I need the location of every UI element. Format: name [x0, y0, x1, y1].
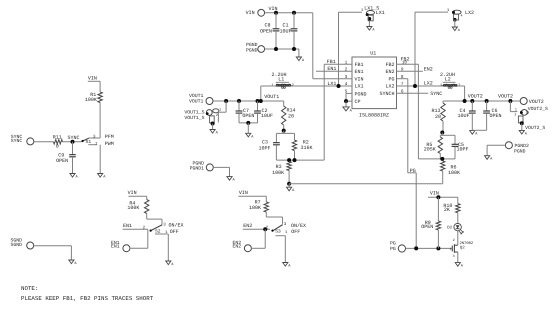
svg-text:C8: C8: [264, 22, 270, 28]
svg-text:7: 7: [401, 82, 404, 87]
svg-text:2: 2: [292, 83, 294, 88]
svg-text:VIN: VIN: [355, 76, 364, 82]
svg-text:U1: U1: [370, 50, 376, 56]
svg-text:PWM: PWM: [105, 141, 114, 147]
svg-text:VOUT1: VOUT1: [264, 94, 279, 100]
svg-text:3: 3: [453, 254, 455, 259]
svg-text:4: 4: [345, 82, 348, 87]
svg-text:SYNC: SYNC: [11, 138, 23, 144]
svg-text:OPEN: OPEN: [260, 29, 272, 35]
svg-text:EN1: EN1: [111, 244, 120, 250]
svg-text:3: 3: [345, 75, 348, 80]
svg-text:10PF: 10PF: [457, 147, 469, 153]
svg-text:NOTE:: NOTE:: [21, 285, 38, 292]
svg-text:100K: 100K: [448, 170, 460, 176]
svg-text:OPEN: OPEN: [421, 224, 433, 230]
svg-text:VOUT2_S: VOUT2_S: [525, 125, 545, 131]
svg-text:2: 2: [345, 67, 348, 72]
svg-text:PLEASE KEEP FB1, FB2 PINS TRAC: PLEASE KEEP FB1, FB2 PINS TRACES SHORT: [21, 295, 154, 302]
svg-text:VIN: VIN: [239, 190, 248, 196]
svg-text:PGND: PGND: [246, 42, 258, 48]
svg-text:8: 8: [401, 75, 404, 80]
svg-text:10PF: 10PF: [259, 146, 271, 152]
svg-text:1: 1: [345, 60, 348, 65]
svg-text:2N7002: 2N7002: [460, 241, 474, 246]
svg-text:OPEN: OPEN: [490, 113, 502, 119]
svg-text:SYNC: SYNC: [430, 91, 442, 97]
svg-text:VOUT2: VOUT2: [498, 93, 513, 99]
svg-text:4: 4: [461, 14, 463, 19]
svg-text:PGND1: PGND1: [190, 166, 205, 172]
svg-text:1: 1: [450, 247, 452, 252]
svg-text:VOUT1_S: VOUT1_S: [184, 115, 204, 121]
svg-text:PFM: PFM: [105, 134, 114, 140]
svg-text:PGND: PGND: [355, 92, 367, 98]
svg-text:1: 1: [219, 108, 221, 113]
svg-text:6: 6: [401, 89, 404, 94]
svg-text:PG: PG: [390, 241, 396, 247]
svg-text:PGND: PGND: [514, 149, 526, 155]
svg-text:LX1: LX1: [327, 81, 336, 87]
svg-text:FB2: FB2: [385, 62, 394, 68]
svg-text:SYNCH: SYNCH: [379, 91, 394, 97]
svg-text:EN2: EN2: [243, 223, 252, 229]
svg-text:D2: D2: [447, 226, 453, 231]
svg-text:L1: L1: [278, 77, 284, 83]
svg-text:EN1: EN1: [327, 66, 336, 72]
svg-text:LX2: LX2: [385, 84, 394, 90]
svg-text:10: 10: [402, 61, 408, 66]
svg-text:SYNC: SYNC: [68, 135, 80, 141]
svg-text:10UF: 10UF: [458, 113, 470, 119]
svg-text:316K: 316K: [301, 145, 313, 151]
svg-text:2: 2: [514, 112, 516, 117]
svg-text:R11: R11: [53, 134, 62, 140]
svg-text:EN2: EN2: [424, 66, 433, 72]
svg-text:0: 0: [56, 143, 59, 149]
svg-text:VIN: VIN: [128, 190, 137, 196]
svg-text:VOUT1: VOUT1: [189, 93, 204, 99]
svg-text:2K: 2K: [444, 207, 450, 213]
svg-text:1: 1: [515, 108, 517, 113]
svg-text:FB1: FB1: [355, 62, 364, 68]
svg-text:100K: 100K: [249, 205, 261, 211]
svg-text:100K: 100K: [85, 97, 97, 103]
svg-text:20: 20: [435, 114, 441, 120]
svg-text:VIN: VIN: [88, 75, 97, 81]
svg-text:L2: L2: [445, 77, 451, 83]
svg-text:Q2: Q2: [460, 245, 466, 250]
svg-text:PG: PG: [390, 246, 396, 252]
svg-text:100K: 100K: [127, 205, 139, 211]
svg-text:10UF: 10UF: [261, 113, 273, 119]
svg-text:VOUT2: VOUT2: [529, 99, 544, 105]
svg-text:20: 20: [288, 114, 294, 120]
svg-text:LX1: LX1: [355, 84, 364, 90]
svg-text:VOUT1_S: VOUT1_S: [184, 110, 204, 116]
svg-text:1: 1: [440, 83, 442, 88]
svg-text:LX1: LX1: [376, 10, 385, 16]
svg-text:EN2: EN2: [385, 69, 394, 75]
svg-text:LX2: LX2: [424, 81, 433, 87]
svg-text:SGND: SGND: [11, 242, 23, 248]
svg-text:VOUT2_S: VOUT2_S: [528, 106, 548, 112]
svg-text:OFF: OFF: [170, 229, 179, 235]
svg-text:PG: PG: [388, 76, 394, 82]
svg-text:9: 9: [401, 67, 404, 72]
svg-text:PGND: PGND: [246, 47, 258, 53]
svg-text:EN1: EN1: [123, 223, 132, 229]
svg-text:ON/EX: ON/EX: [169, 223, 184, 229]
svg-text:1: 1: [271, 83, 273, 88]
svg-text:VIN: VIN: [246, 10, 255, 16]
svg-text:ON/EX: ON/EX: [291, 223, 306, 229]
svg-text:CP: CP: [355, 99, 361, 105]
svg-text:2: 2: [216, 113, 218, 118]
svg-text:EN1: EN1: [355, 69, 364, 75]
svg-text:VOUT2: VOUT2: [468, 93, 483, 99]
svg-text:ISL8088IRZ: ISL8088IRZ: [359, 112, 389, 118]
svg-text:5: 5: [345, 90, 348, 95]
svg-text:OPEN: OPEN: [242, 113, 254, 119]
svg-text:PG: PG: [410, 168, 416, 174]
svg-text:OPEN: OPEN: [56, 158, 68, 164]
svg-text:PGND2: PGND2: [515, 143, 530, 149]
svg-text:205K: 205K: [424, 147, 436, 153]
svg-text:VOUT1: VOUT1: [189, 99, 204, 105]
svg-text:10UF: 10UF: [279, 29, 291, 35]
svg-text:C1: C1: [282, 22, 288, 28]
svg-text:FB1: FB1: [327, 59, 336, 65]
svg-text:100K: 100K: [272, 170, 284, 176]
svg-text:OFF: OFF: [291, 229, 300, 235]
svg-text:LX2: LX2: [465, 10, 474, 16]
svg-text:PGND: PGND: [192, 160, 204, 166]
svg-text:2: 2: [458, 83, 460, 88]
svg-text:2: 2: [453, 238, 455, 243]
svg-text:EN2: EN2: [233, 244, 242, 250]
svg-text:S3: S3: [275, 229, 281, 235]
